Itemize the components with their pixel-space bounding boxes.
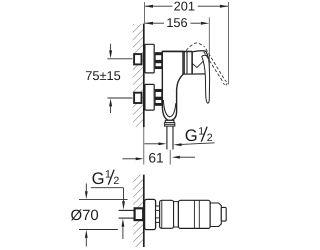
supply square lower (on wall) [134, 93, 141, 103]
61 dimension lower row [122, 158, 135, 160]
svg-text:2: 2 [113, 175, 119, 187]
joint rings [183, 52, 185, 75]
hex nut lower [155, 89, 162, 105]
outlet nipple [221, 207, 226, 221]
G1/2 leader (top view) [174, 143, 182, 146]
solid lever blade (down position) [202, 55, 210, 103]
supply square upper (on wall) [134, 54, 141, 64]
wall face line [143, 24, 145, 127]
dashed raised-lever outline [186, 43, 204, 51]
outlet step [165, 120, 174, 122]
escutcheon block upper [145, 44, 154, 73]
dashed lever tip [223, 80, 227, 85]
hex spacer [156, 206, 160, 222]
mixer body [162, 51, 183, 120]
escutcheon (bottom view) [145, 199, 156, 229]
extension line above wall (left end of 201/156 dims) [143, 2, 145, 24]
Ø70 dimension [79, 198, 128, 200]
escutcheon block lower [145, 84, 154, 110]
supply pipe [119, 209, 135, 211]
dashed lever lines to open position [206, 49, 225, 80]
inner bottom cup line [163, 100, 175, 117]
hex nut upper [155, 53, 162, 69]
hose connection tube [166, 126, 168, 149]
main cylinder [178, 200, 210, 228]
cap bottom edge [183, 73, 206, 75]
svg-text:75±15: 75±15 [85, 68, 121, 83]
svg-text:G: G [185, 126, 198, 145]
wall extension line below wall [143, 127, 145, 165]
svg-text:201: 201 [174, 0, 195, 14]
svg-text:Ø70: Ø70 [71, 208, 99, 224]
valve housing [160, 200, 174, 228]
svg-text:G: G [92, 169, 105, 188]
wall face line bottom view [143, 175, 145, 247]
wall hatch (bottom view) [133, 175, 143, 247]
dimension 75±15 [107, 58, 132, 60]
dimension 201 [145, 2, 228, 84]
cap (cartridge dome) [192, 51, 209, 74]
svg-text:61: 61 [148, 151, 163, 166]
svg-text:2: 2 [207, 132, 213, 144]
top edge body to cap [162, 50, 192, 52]
61 dimension upper line [144, 143, 158, 145]
cap inner V lines [192, 61, 204, 68]
dimension 156 [145, 18, 209, 73]
ring [174, 202, 179, 227]
svg-text:156: 156 [166, 15, 187, 30]
pipe square nut [135, 208, 144, 220]
leader under label down to pipe [91, 187, 124, 189]
outlet nut [165, 123, 175, 126]
wall hatch (top view) [133, 24, 144, 127]
end cap [210, 203, 221, 227]
